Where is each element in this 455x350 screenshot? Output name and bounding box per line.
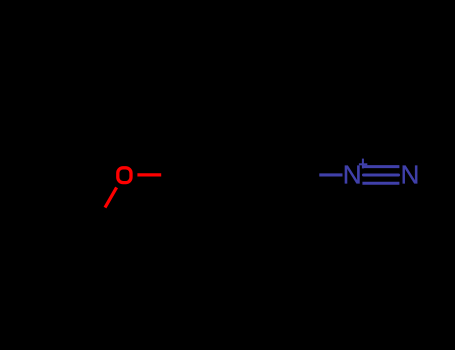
triple bond N1#N2 (blue, three lines) bbox=[362, 167, 399, 184]
bond C1-O (O half, red) bbox=[137, 173, 161, 176]
atom O (ethoxy oxygen, red) bbox=[118, 168, 131, 183]
bond C4-N (ring half, black) bbox=[297, 173, 320, 176]
svg-text:N: N bbox=[343, 160, 362, 190]
bond O-CH2 (O half, red) bbox=[105, 187, 117, 207]
svg-text:N: N bbox=[401, 160, 420, 190]
charge + on N1 bbox=[359, 159, 367, 169]
bond C4-N (N half, blue) bbox=[319, 173, 342, 176]
bond CH2-CH3 (black) bbox=[58, 194, 94, 228]
bond C1-O (ring half, black) bbox=[161, 173, 185, 176]
benzene ring C1-C4 (black skeleton) bbox=[185, 119, 297, 231]
bond O-CH2 (CH2 half, black) bbox=[94, 208, 106, 228]
